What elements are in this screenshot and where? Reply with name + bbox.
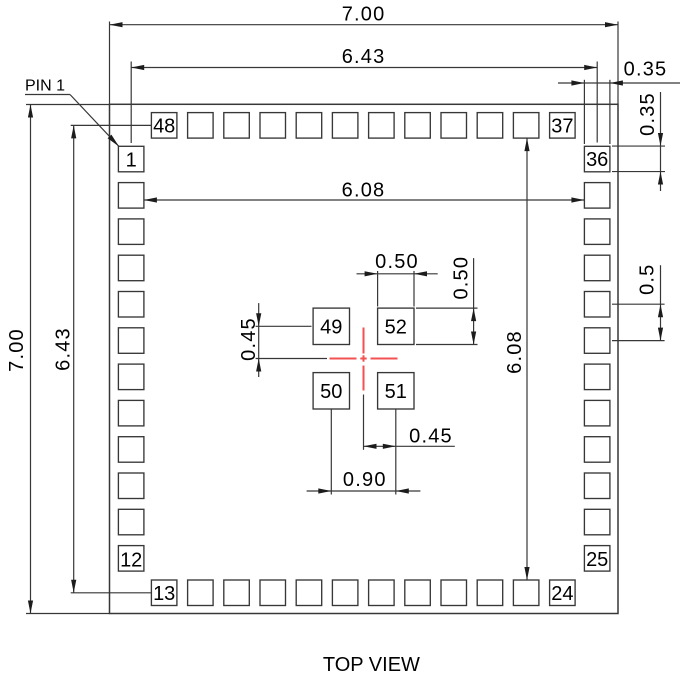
pad 36 (right column) xyxy=(584,146,610,172)
pad 3 (left column) xyxy=(118,219,143,245)
dimension 0.45 left line xyxy=(258,303,260,377)
pad 48 (top row) xyxy=(151,113,177,139)
arrows dimension 0.50 vertical xyxy=(471,308,476,321)
arrows dimension 0.50 top-center xyxy=(365,271,378,276)
pad 41 (top row) xyxy=(405,113,431,139)
dimension 7.00 top line xyxy=(110,24,619,26)
svg-text:1: 1 xyxy=(126,149,137,171)
dimension 0.50 top-center line xyxy=(357,273,438,275)
dimension 6.43 top line xyxy=(131,67,597,69)
pad 25 (right column) xyxy=(584,546,610,572)
pad 14 (bottom row) xyxy=(188,580,214,606)
dimension 0.50 vertical line xyxy=(473,258,475,344)
arrows dimension 0.90 xyxy=(318,488,331,493)
arrows dimension 0.35 pad-width xyxy=(571,80,584,85)
arrows dimension 7.00 top xyxy=(110,22,123,27)
pad 5 (left column) xyxy=(118,292,143,318)
pad 12 (left column) xyxy=(118,546,143,572)
pad 24 (bottom row) xyxy=(550,580,576,606)
dimension 0.90 line xyxy=(307,490,421,492)
svg-text:13: 13 xyxy=(153,583,175,605)
dimension 0.35 pad-width line xyxy=(558,82,680,84)
pad 2 (left column) xyxy=(118,183,143,209)
pad 1 (left column) xyxy=(118,146,143,172)
arrows dimension 0.35 pad-height xyxy=(658,133,663,146)
pad 8 (left column) xyxy=(118,400,143,426)
pad 32 (right column) xyxy=(584,292,610,318)
svg-text:0.5: 0.5 xyxy=(636,263,658,294)
PIN 1 leader arrowhead xyxy=(108,135,119,147)
pad 39 (top row) xyxy=(477,113,503,139)
pad 45 (top row) xyxy=(260,113,286,139)
svg-text:0.35: 0.35 xyxy=(637,92,659,136)
dimension 0.45 left extension lines xyxy=(256,325,312,327)
dimension 0.35 pad-width extension lines xyxy=(583,80,585,144)
pad 44 (top row) xyxy=(296,113,322,139)
dimension 0.45 bottom extension lines xyxy=(363,395,365,450)
svg-text:7.00: 7.00 xyxy=(342,3,386,25)
svg-text:51: 51 xyxy=(385,381,407,403)
title TOP VIEW xyxy=(323,654,420,676)
center pad 50 xyxy=(313,373,349,409)
svg-text:PIN 1: PIN 1 xyxy=(25,78,65,95)
dimension 0.35 pad-height line xyxy=(660,92,662,191)
pad 10 (left column) xyxy=(118,473,143,499)
svg-text:49: 49 xyxy=(320,317,342,339)
svg-text:52: 52 xyxy=(385,317,407,339)
pad 29 (right column) xyxy=(584,400,610,426)
pad 16 (bottom row) xyxy=(260,580,286,606)
svg-text:0.45: 0.45 xyxy=(409,426,453,448)
pad 30 (right column) xyxy=(584,364,610,390)
pad 19 (bottom row) xyxy=(369,580,395,606)
arrows dimension 0.45 left xyxy=(256,313,261,326)
dimension 6.08 vertical line xyxy=(526,138,528,580)
svg-text:6.08: 6.08 xyxy=(342,180,386,202)
pad 43 (top row) xyxy=(332,113,358,139)
pad 9 (left column) xyxy=(118,437,143,463)
pad 40 (top row) xyxy=(441,113,467,139)
pad 33 (right column) xyxy=(584,255,610,281)
pad 46 (top row) xyxy=(224,113,250,139)
pad 38 (top row) xyxy=(513,113,539,139)
dimension 7.00 left extension lines xyxy=(26,104,110,106)
red center mark (package centroid cross) xyxy=(330,328,398,391)
pad 23 (bottom row) xyxy=(513,580,539,606)
arrows dimension 6.08 horizontal xyxy=(144,197,157,202)
svg-text:0.50: 0.50 xyxy=(450,256,472,300)
svg-text:6.08: 6.08 xyxy=(504,330,526,374)
dimension 6.08 horizontal line xyxy=(144,199,585,201)
dimension 6.43 left extension lines xyxy=(71,124,152,126)
arrows dimension 6.08 vertical xyxy=(524,138,529,151)
center pad 52 xyxy=(378,308,414,344)
svg-text:25: 25 xyxy=(586,549,608,571)
pad 7 (left column) xyxy=(118,364,143,390)
svg-text:37: 37 xyxy=(551,116,573,138)
pad 22 (bottom row) xyxy=(477,580,503,606)
pad 21 (bottom row) xyxy=(441,580,467,606)
center pad 51 xyxy=(378,373,414,409)
pad 27 (right column) xyxy=(584,473,610,499)
arrows dimension 0.5 pitch xyxy=(658,304,663,317)
dimension 0.5 pitch extension lines xyxy=(612,303,665,305)
svg-text:36: 36 xyxy=(586,149,608,171)
pad 42 (top row) xyxy=(369,113,395,139)
pad 26 (right column) xyxy=(584,509,610,535)
svg-text:0.90: 0.90 xyxy=(343,469,387,491)
pad 11 (left column) xyxy=(118,509,143,535)
pad 18 (bottom row) xyxy=(332,580,358,606)
dimension 0.35 pad-height extension lines xyxy=(612,145,665,147)
svg-text:0.45: 0.45 xyxy=(238,317,260,361)
pad 6 (left column) xyxy=(118,328,143,354)
arrows dimension 0.45 bottom xyxy=(364,444,377,449)
pad 37 (top row) xyxy=(550,113,576,139)
svg-text:6.43: 6.43 xyxy=(342,46,386,68)
pad 35 (right column) xyxy=(584,183,610,209)
pad 28 (right column) xyxy=(584,437,610,463)
arrows dimension 6.43 left xyxy=(71,125,76,138)
dimension 7.00 left line xyxy=(30,105,32,614)
dimension 0.45 bottom line xyxy=(364,445,455,447)
dimension 7.00 top extension lines xyxy=(109,22,111,105)
svg-text:12: 12 xyxy=(120,549,142,571)
svg-text:7.00: 7.00 xyxy=(6,328,28,372)
pad 31 (right column) xyxy=(584,328,610,354)
dimension 0.5 pitch line xyxy=(660,265,662,340)
svg-text:6.43: 6.43 xyxy=(53,327,75,371)
dimension 0.50 top-center extension lines xyxy=(377,271,379,307)
pad 17 (bottom row) xyxy=(296,580,322,606)
center pad 49 xyxy=(313,308,349,344)
arrows dimension 7.00 left xyxy=(28,105,33,118)
PIN 1 leader line xyxy=(25,94,70,96)
svg-text:TOP VIEW: TOP VIEW xyxy=(323,654,420,676)
dimension 0.90 extension line xyxy=(330,409,332,495)
arrows dimension 6.43 top xyxy=(131,65,144,70)
pad 13 (bottom row) xyxy=(151,580,177,606)
pad 20 (bottom row) xyxy=(405,580,431,606)
PIN 1 label xyxy=(25,78,65,95)
dimension 6.43 top extension lines xyxy=(130,62,132,144)
pad 4 (left column) xyxy=(118,255,143,281)
dimension 0.50 vertical extension lines xyxy=(416,307,478,309)
pad 47 (top row) xyxy=(188,113,214,139)
pad 34 (right column) xyxy=(584,219,610,245)
package body outline xyxy=(110,104,619,613)
svg-text:48: 48 xyxy=(153,116,175,138)
svg-text:0.50: 0.50 xyxy=(375,251,419,273)
svg-text:50: 50 xyxy=(320,381,342,403)
svg-text:24: 24 xyxy=(551,583,573,605)
dimension 6.43 left line xyxy=(73,125,75,592)
pad 15 (bottom row) xyxy=(224,580,250,606)
svg-text:0.35: 0.35 xyxy=(624,59,668,81)
